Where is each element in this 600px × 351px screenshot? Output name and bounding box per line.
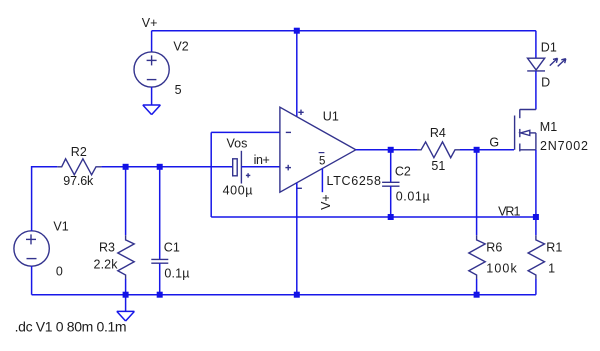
svg-text:5: 5 [319,155,325,167]
svg-text:V+: V+ [142,16,158,30]
ground under V2 [143,105,161,115]
wire R4 to gate [460,149,514,151]
capacitor C2 [382,182,399,186]
svg-text:0.1µ: 0.1µ [164,266,189,280]
wire V+ label stub to V2 [151,31,153,53]
svg-text:Vos: Vos [227,137,248,151]
svg-text:2N7002: 2N7002 [540,139,588,153]
svg-text:0: 0 [56,264,63,278]
wire C2 upper [390,150,392,182]
svg-text:LTC6258: LTC6258 [327,174,382,188]
svg-text:V1: V1 [53,220,68,234]
wire R1 top [535,217,537,235]
svg-text:.dc V1 0 80m 0.1m: .dc V1 0 80m 0.1m [15,319,127,335]
junction C1 top [157,164,163,170]
transistor M1 [515,109,536,151]
capacitor C1 [151,259,168,263]
svg-text:R1: R1 [546,241,562,255]
svg-text:VR1: VR1 [498,204,520,218]
wire battery to in+ [241,166,279,168]
wire R3 drop [125,167,127,235]
wire R3 bottom [125,279,127,295]
wire C1 drop [159,167,161,259]
resistor R3 [118,235,134,279]
svg-text:R6: R6 [486,241,502,255]
svg-text:0.01µ: 0.01µ [396,189,430,203]
wire pin 5 [321,169,323,193]
svg-text:C2: C2 [395,164,411,178]
svg-text:51: 51 [431,159,445,173]
junction rail C1 [157,292,163,298]
svg-text:D1: D1 [541,41,557,55]
wire V1 bottom to rail [31,266,33,295]
svg-text:R2: R2 [71,145,87,159]
wire op-amp output [356,149,417,151]
wire top rail V+ [152,30,536,32]
junction rail R3 [123,292,129,298]
svg-text:2.2k: 2.2k [94,258,119,272]
wire C1 bottom [159,263,161,294]
wire R6 drop [476,150,478,235]
junction gate node R6 [474,147,480,153]
wire R1 bottom [535,279,537,295]
junction C2 bottom [388,214,394,220]
wire LED to M1 drain [535,71,537,110]
svg-text:R3: R3 [99,241,115,255]
wire LED drop from rail [535,31,537,59]
battery Vos [233,151,251,184]
wire V2 to ground [151,87,153,105]
wire feedback stub to inverting input [211,131,280,133]
junction R6 ground [474,292,480,298]
junction V+ rail to op-amp supply [294,28,300,34]
svg-text:1: 1 [548,262,555,276]
wire op-amp V- supply drop [296,183,298,295]
wire feedback vertical [210,132,212,217]
svg-text:in+: in+ [254,153,270,167]
svg-text:C1: C1 [164,241,180,255]
svg-text:D: D [541,76,550,90]
junction C2 top [388,147,394,153]
junction VR1 [533,214,539,220]
wire V1 top to R2 [32,167,58,231]
voltage source V1 [14,231,49,266]
wire R6 bottom [476,279,478,295]
wire bottom ground rail [32,294,536,296]
svg-text:G: G [489,136,499,150]
svg-text:V2: V2 [173,40,188,54]
pin 5 number with overbar [319,153,326,168]
resistor R6 [469,235,485,279]
svg-text:R4: R4 [430,126,446,140]
junction R3 top [123,164,129,170]
svg-text:5: 5 [175,83,182,97]
wire C2 lower [390,186,392,217]
wire ground stub [125,295,127,312]
svg-text:100k: 100k [486,262,517,276]
svg-text:400µ: 400µ [223,183,253,197]
ground at rail [117,311,135,321]
LED D1 [527,58,566,71]
resistor R1 [528,235,544,279]
wire op-amp V+ supply drop [296,31,298,117]
wire M1 source to VR1 [535,150,537,217]
op-amp U1 [280,107,356,192]
svg-text:97.6k: 97.6k [63,174,94,188]
resistor R2 [57,159,101,175]
voltage source V2 [134,52,169,87]
wire VR1 row [211,216,536,218]
junction rail op-amp V- [294,292,300,298]
wire R2 to battery Vos [101,166,232,168]
resistor R4 [417,142,460,158]
svg-text:V+: V+ [319,194,333,210]
svg-text:M1: M1 [540,120,557,134]
svg-text:U1: U1 [323,110,339,124]
